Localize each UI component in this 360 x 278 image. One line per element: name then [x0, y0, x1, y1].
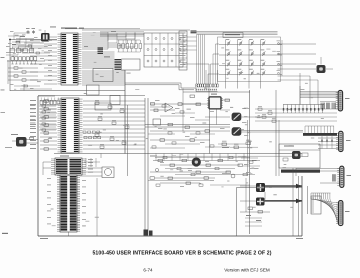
svg-text:5100-450 USER INTERFACE BOARD: 5100-450 USER INTERFACE BOARD VER B SCHE… — [92, 251, 271, 257]
svg-text:Version with EFJ SEM: Version with EFJ SEM — [224, 268, 270, 273]
svg-text:6-74: 6-74 — [143, 268, 153, 273]
